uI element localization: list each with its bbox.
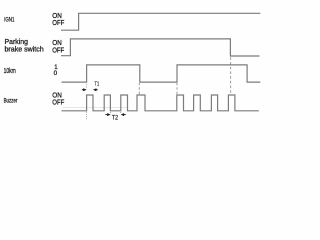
wire Parking brake waveform [61, 39, 260, 56]
dotted vertical below pulse2 fall [109, 112, 111, 114]
svg-text:Buzzer: Buzzer [4, 98, 18, 105]
dashed vertical at parking fall x=230.6 [230, 57, 232, 93]
dotted vertical above buzzer pulse1 rise [85, 84, 87, 88]
svg-text:OFF: OFF [52, 18, 65, 27]
dashed vertical at 10km fall x=139 [138, 83, 140, 94]
svg-text:T1: T1 [95, 81, 100, 87]
T1 dimension arrows [82, 88, 98, 91]
dotted vertical below pulse3 rise [120, 112, 122, 114]
svg-text:IGN1: IGN1 [4, 17, 15, 24]
dashed vertical at 10km rise x=177 [176, 83, 178, 94]
dotted vertical below buzzer pulse1 rise [86, 112, 88, 119]
T2 dimension arrows [105, 113, 125, 116]
wire IGN1 waveform [61, 13, 260, 30]
wire 10km waveform [62, 65, 261, 82]
svg-text:OFF: OFF [52, 97, 65, 106]
svg-text:0: 0 [54, 70, 58, 77]
timing diagram: speed warning buzzer chart [0, 0, 268, 134]
faint scan ghost line above buzzer baseline [63, 106, 128, 108]
svg-text:Parking: Parking [5, 39, 29, 46]
svg-text:T2: T2 [112, 115, 119, 121]
svg-text:10km: 10km [4, 68, 16, 75]
svg-text:OFF: OFF [52, 45, 65, 54]
wire Buzzer pulse waveform [62, 95, 259, 111]
svg-text:brake switch: brake switch [5, 47, 44, 54]
